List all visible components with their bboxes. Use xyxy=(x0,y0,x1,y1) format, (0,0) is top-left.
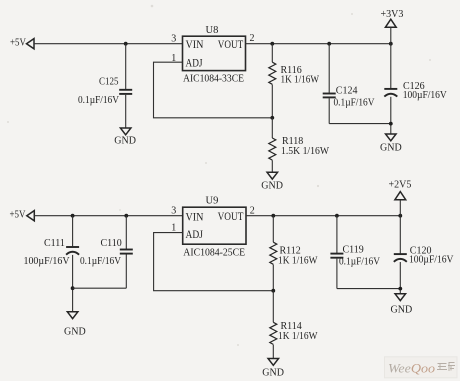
svg-text:1.5K 1/16W: 1.5K 1/16W xyxy=(281,146,330,157)
capacitor C110 xyxy=(120,250,133,254)
wire R112 top lead xyxy=(272,216,274,243)
wire C125 bottom lead xyxy=(125,95,127,128)
svg-text:+5V: +5V xyxy=(10,38,27,49)
svg-text:3: 3 xyxy=(171,33,176,44)
wire R112 bottom lead xyxy=(272,265,274,291)
wire C124 to C126 ground link xyxy=(329,123,391,125)
wire C110 to C111 ground link xyxy=(73,287,127,289)
wire C125 top lead xyxy=(125,44,127,89)
wire +3V3 to VOUT rail xyxy=(390,27,392,43)
junction R116 / VOUT rail xyxy=(270,42,274,46)
wire C119 top lead xyxy=(336,216,338,253)
wire C120 bottom lead xyxy=(399,262,401,294)
svg-text:U8: U8 xyxy=(206,25,219,36)
svg-text:1K 1/16W: 1K 1/16W xyxy=(281,74,320,85)
junction +2V5 / C120 / VOUT rail xyxy=(398,214,402,218)
junction C126 / ground link xyxy=(389,122,393,126)
capacitor C124 xyxy=(323,94,336,98)
junction C111 / C110 ground link xyxy=(71,286,75,290)
svg-text:VIN: VIN xyxy=(186,39,205,51)
wire R116 bottom lead xyxy=(271,85,273,118)
wire VOUT rail (top) xyxy=(246,43,391,45)
ground (C111) xyxy=(64,312,86,338)
wire R116 top lead xyxy=(271,44,273,63)
svg-text:ADJ: ADJ xyxy=(186,57,203,69)
wire C126 top lead xyxy=(390,44,392,89)
node +5V (top) arrow symbol xyxy=(27,39,35,49)
wire C124 bottom lead xyxy=(328,98,330,123)
resistor R112 xyxy=(270,242,277,264)
svg-text:2: 2 xyxy=(250,33,255,44)
capacitor C111 (polarized) xyxy=(66,247,79,255)
IC U9 (AIC1084-25CE regulator) box xyxy=(183,207,246,244)
svg-text:ADJ: ADJ xyxy=(186,229,204,241)
svg-text:C125: C125 xyxy=(99,77,119,88)
capacitor C120 (polarized) xyxy=(394,254,407,262)
node +2V5 arrow symbol xyxy=(395,192,406,200)
svg-text:AIC1084-33CE: AIC1084-33CE xyxy=(183,74,244,85)
capacitor C125 xyxy=(119,90,132,94)
wire R114 top lead xyxy=(272,291,274,323)
wire C124 top lead xyxy=(328,44,330,93)
capacitor C119 xyxy=(330,254,343,258)
svg-text:1: 1 xyxy=(171,222,176,233)
svg-text:VOUT: VOUT xyxy=(218,39,244,51)
svg-text:C110: C110 xyxy=(101,238,122,249)
wire C119 to C120 ground link xyxy=(337,288,400,290)
svg-text:C111: C111 xyxy=(44,238,65,249)
svg-text:GND: GND xyxy=(261,181,283,192)
wire C111 top lead xyxy=(72,216,74,247)
svg-text:+2V5: +2V5 xyxy=(389,180,412,191)
svg-text:AIC1084-25CE: AIC1084-25CE xyxy=(183,247,245,258)
svg-text:GND: GND xyxy=(262,367,284,378)
wire C120 top lead xyxy=(399,216,401,254)
wire U8 ADJ to divider tap xyxy=(154,62,273,118)
junction R112 / VOUT rail xyxy=(271,214,275,218)
svg-text:2: 2 xyxy=(250,205,255,216)
wire R118 bottom lead xyxy=(271,160,273,172)
wire C110 bottom lead xyxy=(125,255,127,289)
svg-text:0.1µF/16V: 0.1µF/16V xyxy=(80,256,122,267)
svg-text:GND: GND xyxy=(64,326,86,337)
watermark box xyxy=(385,357,458,378)
resistor R114 xyxy=(270,322,277,344)
ground (R114) xyxy=(262,359,284,379)
svg-text:0.1µF/16V: 0.1µF/16V xyxy=(78,95,120,106)
svg-text:+3V3: +3V3 xyxy=(381,9,404,20)
wire C126 bottom lead xyxy=(390,97,392,134)
node +3V3 arrow symbol xyxy=(385,19,396,27)
junction C111 / +5V rail xyxy=(71,214,75,218)
svg-text:U9: U9 xyxy=(206,195,219,206)
wire VOUT rail (bottom) xyxy=(246,215,400,217)
wire C111 bottom lead xyxy=(72,255,74,312)
wire R114 bottom lead xyxy=(272,345,274,359)
junction C125 / +5V rail xyxy=(124,42,128,46)
svg-text:100µF/16V: 100µF/16V xyxy=(24,256,71,267)
svg-text:GND: GND xyxy=(380,143,402,154)
svg-text:+5V: +5V xyxy=(10,209,27,220)
svg-text:C124: C124 xyxy=(336,85,358,96)
svg-text:GND: GND xyxy=(114,135,136,146)
junction C124 / VOUT rail xyxy=(327,42,331,46)
svg-text:VOUT: VOUT xyxy=(218,211,244,223)
ground (C120) xyxy=(391,294,413,316)
svg-text:3: 3 xyxy=(171,205,176,216)
svg-text:1K 1/16W: 1K 1/16W xyxy=(278,331,318,342)
wire U9 ADJ to divider tap xyxy=(154,233,274,291)
wire +5V to VIN (top rail) xyxy=(34,43,183,45)
node +5V (bottom) arrow symbol xyxy=(27,211,35,221)
wire +5V to VIN (bottom rail) xyxy=(34,215,182,217)
svg-text:1K 1/16W: 1K 1/16W xyxy=(278,255,318,266)
wire +2V5 to VOUT rail xyxy=(399,200,401,216)
junction ADJ tap / R112 / R114 xyxy=(271,289,275,293)
svg-text:WeeQoo: WeeQoo xyxy=(388,362,435,376)
resistor R118 xyxy=(269,138,276,160)
svg-text:VIN: VIN xyxy=(186,211,205,223)
IC U8 (AIC1084-33CE regulator) box xyxy=(183,36,246,70)
junction C119 / VOUT rail xyxy=(335,214,339,218)
svg-text:100µF/16V: 100µF/16V xyxy=(409,254,454,265)
junction C120 / ground link xyxy=(398,287,402,291)
wire R118 top lead xyxy=(271,118,273,138)
svg-text:0.1µF/16V: 0.1µF/16V xyxy=(334,97,376,108)
wire C110 top lead xyxy=(125,216,127,249)
svg-text:C119: C119 xyxy=(343,244,364,255)
ground (C126) xyxy=(380,134,402,154)
junction +3V3 / C126 / VOUT rail xyxy=(389,42,393,46)
wire C119 bottom lead xyxy=(336,259,338,289)
junction ADJ tap / R116 / R118 xyxy=(270,116,274,120)
svg-text:0.1µF/16V: 0.1µF/16V xyxy=(339,256,381,267)
resistor R116 xyxy=(269,62,276,84)
svg-text:100µF/16V: 100µF/16V xyxy=(403,90,448,101)
ground (C125) xyxy=(114,128,136,146)
ground (R118) xyxy=(261,172,283,191)
svg-text:GND: GND xyxy=(391,304,413,315)
junction C110 / +5V rail xyxy=(124,214,128,218)
capacitor C126 (polarized) xyxy=(384,89,397,97)
